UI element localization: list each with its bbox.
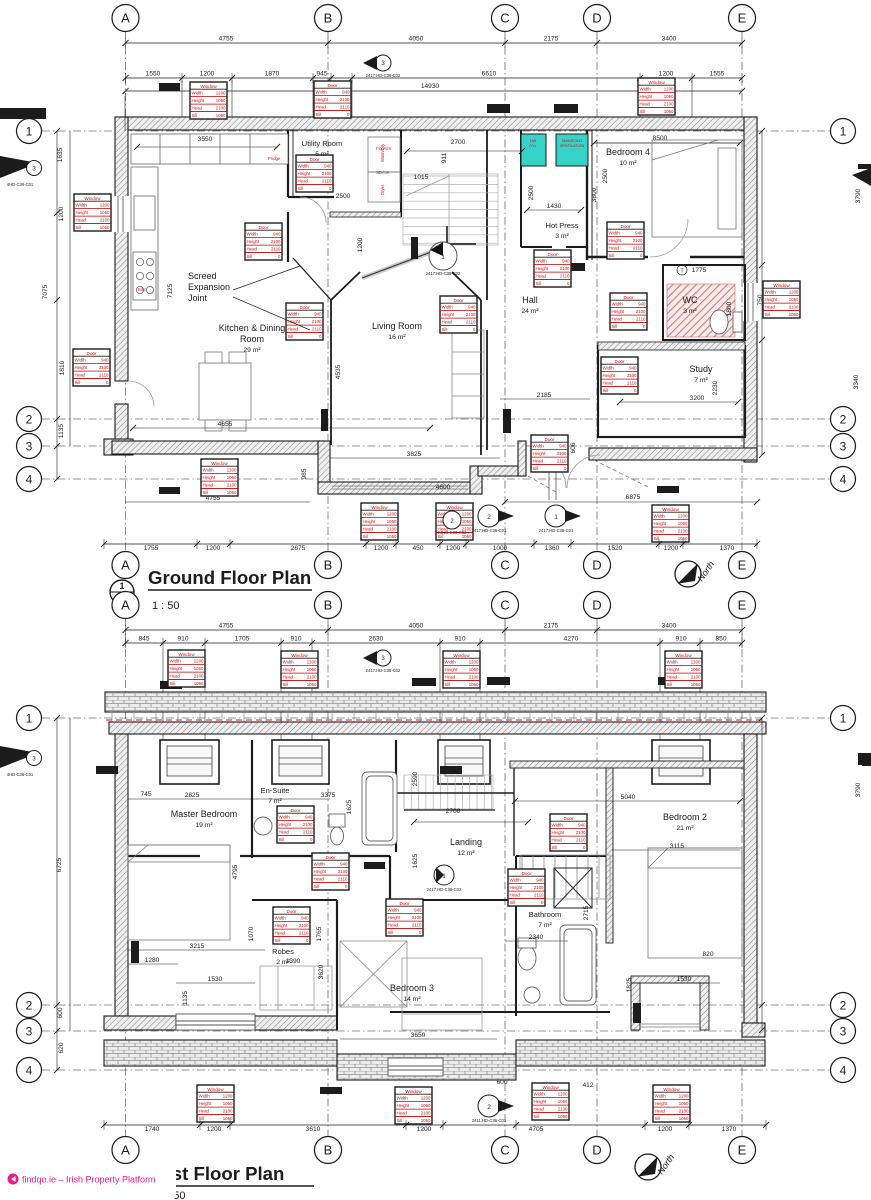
svg-text:3: 3: [840, 1024, 847, 1038]
wall plan2 bottom-right corner: [742, 1023, 765, 1037]
svg-text:D: D: [592, 598, 601, 613]
room label Utility Room: [302, 139, 342, 158]
svg-text:2100: 2100: [560, 266, 570, 271]
wall ensuite right: [395, 740, 397, 852]
wall plan1 bottom-left corner: [104, 439, 133, 455]
svg-text:1050: 1050: [194, 681, 204, 686]
grid line column A (plan 2): [125, 618, 127, 1138]
svg-text:Expansion: Expansion: [188, 282, 230, 292]
svg-text:Elec: Elec: [138, 287, 146, 292]
wall plan2 top exterior wall: [109, 722, 766, 734]
svg-text:Height: Height: [388, 915, 401, 920]
wall bedroom2 top: [510, 762, 742, 766]
svg-text:SD/HA: SD/HA: [376, 170, 389, 175]
svg-text:1050: 1050: [387, 534, 397, 539]
svg-text:940: 940: [536, 878, 544, 883]
svg-text:1530: 1530: [677, 976, 692, 983]
svg-text:Sill: Sill: [442, 327, 448, 332]
svg-text:Head: Head: [314, 877, 325, 882]
kitchen worktop top run: [131, 134, 288, 310]
grid line column D (plan 1): [596, 31, 598, 552]
wall plan1 right exterior: [744, 117, 757, 462]
svg-text:1050: 1050: [664, 94, 674, 99]
svg-text:2100: 2100: [789, 305, 799, 310]
grid bubble 4 right plan2: [831, 1058, 856, 1083]
schedule box D20 (Door): [277, 806, 314, 843]
svg-text:10 m²: 10 m²: [619, 160, 637, 167]
right dimension chain plan2: [761, 718, 763, 1030]
svg-text:2100: 2100: [466, 312, 476, 317]
svg-text:1135: 1135: [182, 991, 189, 1006]
lintel: [657, 486, 679, 493]
svg-text:Sill: Sill: [75, 380, 81, 385]
schedule box D09 (Door): [610, 293, 647, 330]
svg-text:7075: 7075: [42, 284, 49, 299]
right dimension chain plan1: [761, 131, 763, 455]
wall bathroom left: [515, 856, 517, 1016]
room label Study: [689, 364, 713, 384]
svg-text:910: 910: [177, 636, 188, 643]
svg-text:Height: Height: [314, 869, 327, 874]
svg-text:Head: Head: [279, 830, 290, 835]
schedule box W08 (Window): [763, 281, 800, 318]
svg-text:1 : 50: 1 : 50: [152, 600, 180, 612]
svg-text:1: 1: [840, 711, 847, 725]
svg-text:T: T: [680, 268, 683, 274]
svg-text:Window: Window: [211, 461, 228, 466]
svg-text:Window: Window: [675, 653, 692, 658]
svg-text:985: 985: [301, 468, 308, 479]
svg-text:1200: 1200: [216, 91, 226, 96]
svg-text:Sill: Sill: [192, 113, 198, 118]
wall plan2 right exterior: [744, 734, 757, 1037]
svg-text:945: 945: [316, 71, 327, 78]
svg-text:24 m²: 24 m²: [521, 308, 539, 315]
schedule box D08 (Door): [534, 250, 571, 287]
wall living room entry diagonal: [362, 246, 447, 278]
svg-text:1200: 1200: [446, 545, 461, 552]
svg-text:1200: 1200: [421, 1096, 431, 1101]
svg-text:2175: 2175: [544, 36, 559, 43]
svg-text:Width: Width: [765, 290, 777, 295]
svg-text:Door: Door: [621, 224, 631, 229]
lintel: [487, 104, 510, 113]
svg-text:Height: Height: [76, 210, 89, 215]
svg-text:620: 620: [58, 1042, 65, 1053]
grid bubble C bottom plan2: [492, 1137, 519, 1164]
svg-text:Door: Door: [454, 298, 464, 303]
svg-text:940: 940: [305, 815, 313, 820]
svg-text:3: 3: [840, 439, 847, 453]
svg-text:2100: 2100: [223, 1109, 233, 1114]
svg-text:Head: Head: [609, 246, 620, 251]
svg-text:2100: 2100: [679, 1109, 689, 1114]
svg-text:940: 940: [559, 444, 567, 449]
grid bubble 4 left plan1: [17, 467, 42, 492]
svg-text:2: 2: [26, 412, 33, 426]
svg-text:Sill: Sill: [170, 681, 176, 686]
svg-text:2110: 2110: [534, 893, 544, 898]
svg-text:3800: 3800: [591, 187, 598, 202]
svg-text:1050: 1050: [387, 519, 397, 524]
svg-text:2: 2: [840, 998, 847, 1012]
svg-text:VENTILATION: VENTILATION: [560, 144, 585, 148]
svg-text:5 m²: 5 m²: [315, 151, 329, 158]
svg-text:2100: 2100: [678, 529, 688, 534]
svg-text:Bathroom: Bathroom: [529, 910, 562, 919]
svg-text:7 m²: 7 m²: [694, 377, 708, 384]
svg-text:WC: WC: [683, 295, 698, 305]
svg-text:910: 910: [290, 636, 301, 643]
wall bedroom2 bay right: [700, 983, 709, 1030]
rafter ticks plan2 top: [112, 712, 750, 722]
grid bubble 2 left plan1: [17, 407, 42, 432]
svg-text:1070: 1070: [248, 926, 255, 941]
svg-text:2100: 2100: [100, 218, 110, 223]
svg-text:2175: 2175: [544, 623, 559, 630]
svg-text:Sill: Sill: [654, 536, 660, 541]
svg-text:Head: Head: [75, 373, 86, 378]
svg-text:Kitchen & Dining: Kitchen & Dining: [219, 323, 286, 333]
svg-text:2825: 2825: [185, 792, 200, 799]
lintel: [564, 263, 585, 271]
svg-text:1200: 1200: [357, 237, 364, 252]
dimension string openings top plan2: [126, 642, 743, 644]
svg-text:Head: Head: [363, 527, 374, 532]
svg-text:1555: 1555: [710, 71, 725, 78]
svg-text:4050: 4050: [409, 623, 424, 630]
wall hot press right / bedroom4 left: [586, 130, 588, 260]
svg-text:Sill: Sill: [536, 281, 542, 286]
left dimension chain plan1: [56, 131, 58, 479]
stair bottom edge walls: [446, 226, 448, 245]
wall band plan2 top eaves band: [105, 692, 766, 712]
svg-text:3825: 3825: [407, 451, 422, 458]
svg-text:Sill: Sill: [510, 900, 516, 905]
svg-text:Door: Door: [400, 901, 410, 906]
svg-text:1050: 1050: [216, 113, 226, 118]
svg-text:1755: 1755: [144, 545, 159, 552]
svg-text:Width: Width: [533, 444, 545, 449]
svg-text:Width: Width: [275, 916, 287, 921]
svg-text:Height: Height: [316, 97, 329, 102]
svg-text:Door: Door: [328, 83, 338, 88]
svg-text:Head: Head: [603, 381, 614, 386]
svg-text:Sill: Sill: [298, 186, 304, 191]
svg-text:1050: 1050: [100, 225, 110, 230]
svg-text:2100: 2100: [387, 527, 397, 532]
svg-text:1: 1: [554, 514, 558, 521]
schedule box W15 (Window): [395, 1087, 432, 1124]
svg-text:2110: 2110: [576, 838, 586, 843]
svg-text:850: 850: [715, 636, 726, 643]
leader lines screed note: [233, 297, 310, 330]
wall band plan2 bottom band right: [516, 1040, 765, 1066]
svg-text:Width: Width: [170, 659, 182, 664]
svg-text:Height: Height: [75, 365, 88, 370]
svg-text:2100: 2100: [691, 675, 701, 680]
wall landing/bedroom2: [609, 768, 611, 940]
svg-text:Bedroom 3: Bedroom 3: [390, 983, 434, 993]
svg-text:Height: Height: [298, 171, 311, 176]
svg-text:1: 1: [840, 124, 847, 138]
lintel: [159, 487, 180, 494]
schedule box D04 (Door): [440, 296, 477, 333]
svg-text:4755: 4755: [219, 623, 234, 630]
svg-text:1200: 1200: [207, 1126, 222, 1133]
svg-text:1200: 1200: [307, 660, 317, 665]
svg-text:4795: 4795: [232, 864, 239, 879]
shower plan2: [554, 868, 592, 908]
dimension string grid columns plan2: [126, 629, 743, 631]
svg-text:2675: 2675: [291, 545, 306, 552]
window unit bottom-left plan2: [176, 1014, 255, 1030]
cooker plan1: [133, 252, 156, 300]
svg-text:1050: 1050: [691, 667, 701, 672]
svg-text:1200: 1200: [58, 206, 65, 221]
grid bubble D bottom plan2: [584, 1137, 611, 1164]
svg-text:Sill: Sill: [388, 930, 394, 935]
svg-text:Door: Door: [326, 855, 336, 860]
svg-text:MANIFOLD: MANIFOLD: [562, 139, 582, 143]
svg-text:8500: 8500: [653, 135, 668, 142]
svg-text:Sill: Sill: [288, 334, 294, 339]
lintel: [159, 83, 180, 91]
grid bubble D bottom plan1: [584, 552, 611, 579]
svg-text:Head: Head: [552, 838, 563, 843]
schedule box D21 (Door): [312, 853, 349, 890]
svg-text:Window: Window: [542, 1085, 559, 1090]
svg-text:Height: Height: [552, 830, 565, 835]
svg-text:Height: Height: [192, 98, 205, 103]
svg-text:24HD-C36-C02: 24HD-C36-C02: [438, 530, 468, 535]
schedule box W11 (Window): [281, 651, 318, 688]
room label Robes: [272, 947, 294, 966]
bed master plan2: [128, 845, 230, 940]
svg-text:2110: 2110: [322, 179, 332, 184]
schedule box D05 (Door): [286, 303, 323, 340]
svg-text:Sill: Sill: [275, 938, 281, 943]
svg-text:14930: 14930: [421, 83, 440, 90]
svg-text:Door: Door: [522, 871, 532, 876]
svg-text:3400: 3400: [662, 623, 677, 630]
svg-text:2340: 2340: [529, 934, 544, 941]
svg-text:6875: 6875: [626, 494, 641, 501]
dimension 14930 overall plan1: [126, 90, 743, 92]
svg-text:2100: 2100: [307, 675, 317, 680]
wall study enclosure: [598, 346, 745, 437]
grid line column C (plan 1): [504, 31, 506, 552]
svg-text:2500: 2500: [528, 185, 535, 200]
wall band plan2 bottom band centre bay: [337, 1054, 516, 1080]
svg-text:940: 940: [635, 231, 643, 236]
svg-text:1625: 1625: [346, 799, 353, 814]
wall living room corner NW: [331, 272, 360, 300]
section flag top plan1: [363, 55, 401, 78]
room label Master Bedroom: [171, 809, 238, 829]
svg-text:3115: 3115: [670, 843, 685, 850]
svg-text:Head: Head: [76, 218, 87, 223]
door tag circle 1: [539, 505, 581, 533]
window unit bay bedroom3 plan2: [388, 1058, 443, 1076]
svg-text:Head: Head: [275, 931, 286, 936]
bottom dimension string plan1: [104, 543, 757, 545]
svg-text:2110: 2110: [338, 877, 348, 882]
svg-text:1050: 1050: [223, 1116, 233, 1121]
wall plan1 bay right wall: [470, 466, 482, 494]
svg-text:1765: 1765: [316, 926, 323, 941]
svg-text:4050: 4050: [409, 36, 424, 43]
svg-text:1200: 1200: [659, 71, 674, 78]
svg-text:3550: 3550: [198, 136, 213, 143]
svg-text:910: 910: [675, 636, 686, 643]
svg-text:3200: 3200: [690, 395, 705, 402]
svg-text:1200: 1200: [374, 545, 389, 552]
schedule box W17 (Window): [653, 1085, 690, 1122]
svg-text:1520: 1520: [608, 545, 623, 552]
svg-text:2100: 2100: [534, 885, 544, 890]
wall bedroom2 bay left: [631, 983, 640, 1030]
grid bubble A top plan1: [112, 5, 139, 32]
svg-text:845: 845: [138, 636, 149, 643]
schedule box W03 (Window): [74, 194, 111, 231]
svg-text:C: C: [500, 1143, 509, 1158]
svg-text:2411:HD-C36-C01: 2411:HD-C36-C01: [472, 1118, 507, 1123]
svg-text:1050: 1050: [789, 297, 799, 302]
svg-text:2100: 2100: [227, 483, 237, 488]
grid bubble 2 left plan2: [17, 993, 42, 1018]
bed bedroom3 plan2: [402, 958, 482, 1030]
svg-text:Height: Height: [279, 822, 292, 827]
svg-text:2100: 2100: [338, 869, 348, 874]
svg-text:2417:HD-C36-C02: 2417:HD-C36-C02: [426, 271, 461, 276]
bath ensuite plan2: [362, 772, 397, 845]
schedule box W05 (Window): [361, 503, 398, 540]
svg-text:Door: Door: [564, 816, 574, 821]
svg-text:Width: Width: [247, 232, 259, 237]
svg-text:Width: Width: [203, 468, 215, 473]
svg-text:4600: 4600: [436, 484, 451, 491]
svg-text:1050: 1050: [227, 475, 237, 480]
svg-text:2500: 2500: [336, 193, 351, 200]
svg-text:745: 745: [140, 791, 151, 798]
svg-text:Window: Window: [773, 283, 790, 288]
svg-text:Door: Door: [624, 295, 634, 300]
toilet ensuite plan2: [254, 814, 345, 845]
svg-text:Height: Height: [397, 1103, 410, 1108]
grid bubble B top plan2: [315, 592, 342, 619]
wall plan1 bay left wall: [318, 441, 330, 494]
svg-text:2100: 2100: [194, 674, 204, 679]
svg-text:Height: Height: [442, 312, 455, 317]
wall utility bottom band: [330, 212, 401, 217]
svg-text:Sill: Sill: [199, 1116, 205, 1121]
svg-text:Window: Window: [178, 652, 195, 657]
svg-text:Head: Head: [534, 1107, 545, 1112]
north arrow plan1: [675, 559, 716, 587]
bed bedroom4 plan1: [652, 140, 742, 237]
svg-text:Sill: Sill: [612, 324, 618, 329]
svg-text:1200: 1200: [227, 468, 237, 473]
svg-text:4705: 4705: [529, 1126, 544, 1133]
svg-text:Width: Width: [288, 312, 300, 317]
svg-text:Window: Window: [648, 80, 665, 85]
svg-text:E: E: [738, 1143, 747, 1158]
svg-text:1370: 1370: [722, 1126, 737, 1133]
svg-text:1000: 1000: [493, 545, 508, 552]
svg-text:1050: 1050: [462, 519, 472, 524]
svg-text:Window: Window: [371, 505, 388, 510]
room label Bedroom 3: [390, 983, 434, 1003]
svg-text:Head: Head: [612, 317, 623, 322]
svg-text:Height: Height: [765, 297, 778, 302]
svg-text:HW: HW: [530, 139, 537, 143]
red setting-out line plan2: [106, 719, 766, 721]
svg-text:2100: 2100: [322, 171, 332, 176]
grid bubble E bottom plan2: [729, 1137, 756, 1164]
stairs plan1: [403, 174, 498, 245]
svg-text:1050: 1050: [307, 667, 317, 672]
svg-text:Height: Height: [655, 1101, 668, 1106]
grid bubble A top plan2: [112, 592, 139, 619]
svg-text:1200: 1200: [462, 512, 472, 517]
grid line column E (plan 1): [741, 31, 743, 552]
svg-text:940: 940: [314, 312, 322, 317]
grid bubble C top plan2: [492, 592, 519, 619]
svg-text:3375: 3375: [321, 792, 336, 799]
title Ground Floor Plan: [110, 567, 312, 612]
svg-text:1050: 1050: [100, 210, 110, 215]
svg-text:820: 820: [702, 951, 713, 958]
svg-text:CYL: CYL: [529, 144, 536, 148]
svg-text:940: 940: [562, 259, 570, 264]
svg-text:Sill: Sill: [76, 225, 82, 230]
grid bubble A bottom plan1: [112, 552, 139, 579]
svg-text:1050: 1050: [679, 1101, 689, 1106]
grid bubble 4 left plan2: [17, 1058, 42, 1083]
wall utility bottom: [288, 196, 334, 198]
svg-text:4HD-C36-C01: 4HD-C36-C01: [7, 772, 34, 777]
svg-text:1550: 1550: [146, 71, 161, 78]
svg-text:1050: 1050: [307, 682, 317, 687]
wall bedroom2 window bay top: [631, 976, 709, 983]
wall plan1 left exterior lower: [115, 404, 128, 444]
svg-text:Height: Height: [510, 885, 523, 890]
wall hall left: [486, 130, 488, 300]
schedule box D25 (Door): [386, 899, 423, 936]
wall utility divider: [287, 130, 289, 197]
svg-text:1050: 1050: [469, 667, 479, 672]
svg-text:Door: Door: [545, 437, 555, 442]
svg-text:Height: Height: [275, 923, 288, 928]
ventilation cyan box: [556, 134, 588, 166]
bottom dimension string plan2: [104, 1124, 766, 1126]
svg-text:Living Room: Living Room: [372, 321, 422, 331]
dimension string openings top plan1: [126, 77, 743, 79]
svg-text:Joint: Joint: [188, 293, 208, 303]
svg-text:Head: Head: [316, 105, 327, 110]
svg-text:Window: Window: [663, 1087, 680, 1092]
svg-text:600: 600: [496, 1079, 507, 1086]
svg-text:2: 2: [487, 514, 491, 521]
svg-text:Width: Width: [75, 358, 87, 363]
svg-text:2110: 2110: [340, 105, 350, 110]
svg-text:Width: Width: [316, 90, 328, 95]
grid bubble E bottom plan1: [729, 552, 756, 579]
grid bubble 1 right plan1: [831, 119, 856, 144]
svg-text:Head: Head: [247, 247, 258, 252]
svg-text:Door: Door: [300, 305, 310, 310]
